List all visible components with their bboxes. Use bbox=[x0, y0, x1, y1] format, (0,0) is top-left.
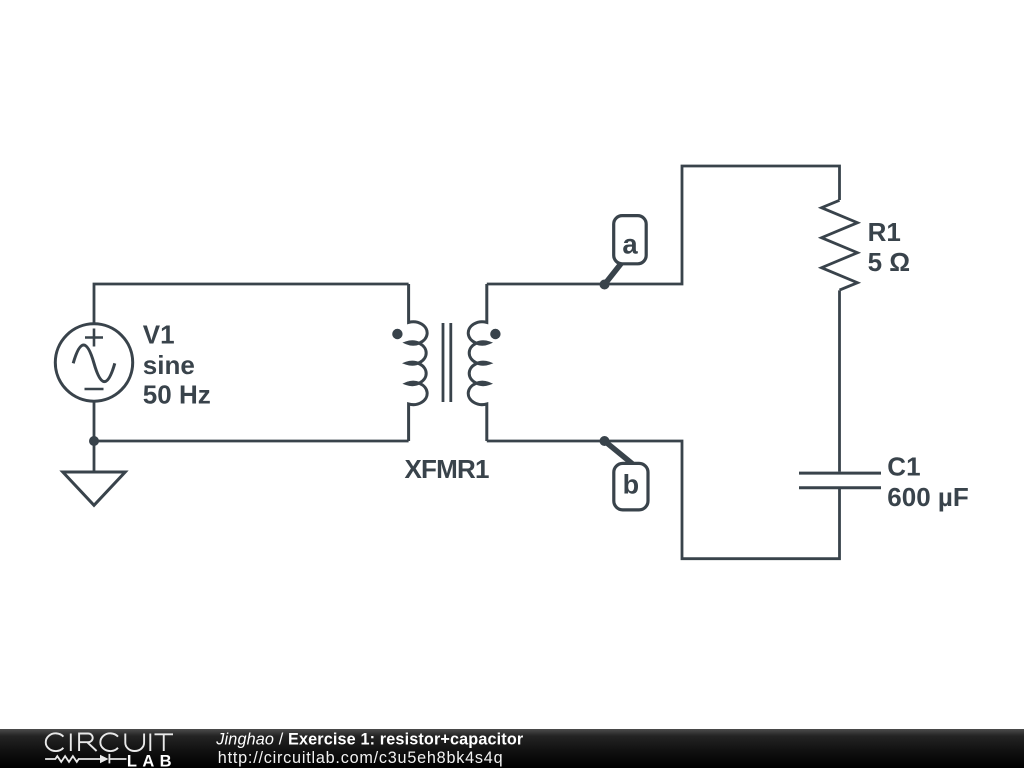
svg-text:LAB: LAB bbox=[127, 752, 177, 768]
svg-text:http://circuitlab.com/c3u5eh8b: http://circuitlab.com/c3u5eh8bk4s4q bbox=[218, 749, 504, 767]
CircuitLab logo diode triangle bbox=[100, 755, 109, 763]
wire bottom-left loop bbox=[94, 402, 409, 441]
node a flag box bbox=[614, 216, 647, 264]
svg-text:sine: sine bbox=[143, 350, 195, 380]
svg-text:V1: V1 bbox=[143, 320, 175, 350]
transformer XFMR1 primary winding bbox=[406, 284, 427, 441]
svg-text:C1: C1 bbox=[887, 452, 920, 482]
wire top-left loop bbox=[94, 284, 409, 324]
transformer core bbox=[443, 323, 451, 402]
svg-text:R1: R1 bbox=[868, 217, 901, 247]
ground bbox=[63, 472, 125, 505]
CircuitLab logo CIRCUIT bbox=[46, 733, 173, 751]
voltage source V1 bbox=[55, 324, 132, 401]
node a leader bbox=[605, 263, 622, 285]
junction node V1-ground bbox=[89, 436, 99, 446]
svg-text:50 Hz: 50 Hz bbox=[143, 380, 211, 410]
svg-text:a: a bbox=[622, 229, 638, 260]
R1 label bbox=[868, 217, 911, 277]
capacitor C1 bbox=[799, 473, 881, 488]
resistor R1 bbox=[822, 200, 858, 290]
CircuitLab logo resistor-diode mark bbox=[45, 754, 126, 764]
primary phase dot bbox=[392, 329, 402, 339]
svg-text:600 µF: 600 µF bbox=[887, 482, 968, 512]
wire secondary top / node a / top-right loop bbox=[487, 166, 840, 284]
V1 label bbox=[143, 320, 211, 410]
node b flag box bbox=[614, 463, 648, 510]
svg-text:XFMR1: XFMR1 bbox=[405, 454, 489, 484]
svg-text:Jinghao / Exercise 1: resistor: Jinghao / Exercise 1: resistor+capacitor bbox=[215, 731, 524, 749]
node a junction dot bbox=[600, 280, 610, 290]
C1 label bbox=[887, 452, 968, 513]
svg-text:b: b bbox=[623, 470, 640, 500]
transformer XFMR1 secondary winding bbox=[468, 284, 489, 441]
svg-text:5 Ω: 5 Ω bbox=[868, 247, 911, 277]
footer bar bbox=[0, 729, 1024, 768]
secondary phase dot bbox=[490, 329, 500, 339]
node b leader bbox=[605, 441, 633, 464]
wire bottom-right loop / node b bbox=[487, 441, 840, 559]
wire resistor to capacitor bbox=[838, 290, 841, 471]
node b junction dot bbox=[600, 436, 610, 446]
wire ground stem bbox=[93, 441, 96, 472]
